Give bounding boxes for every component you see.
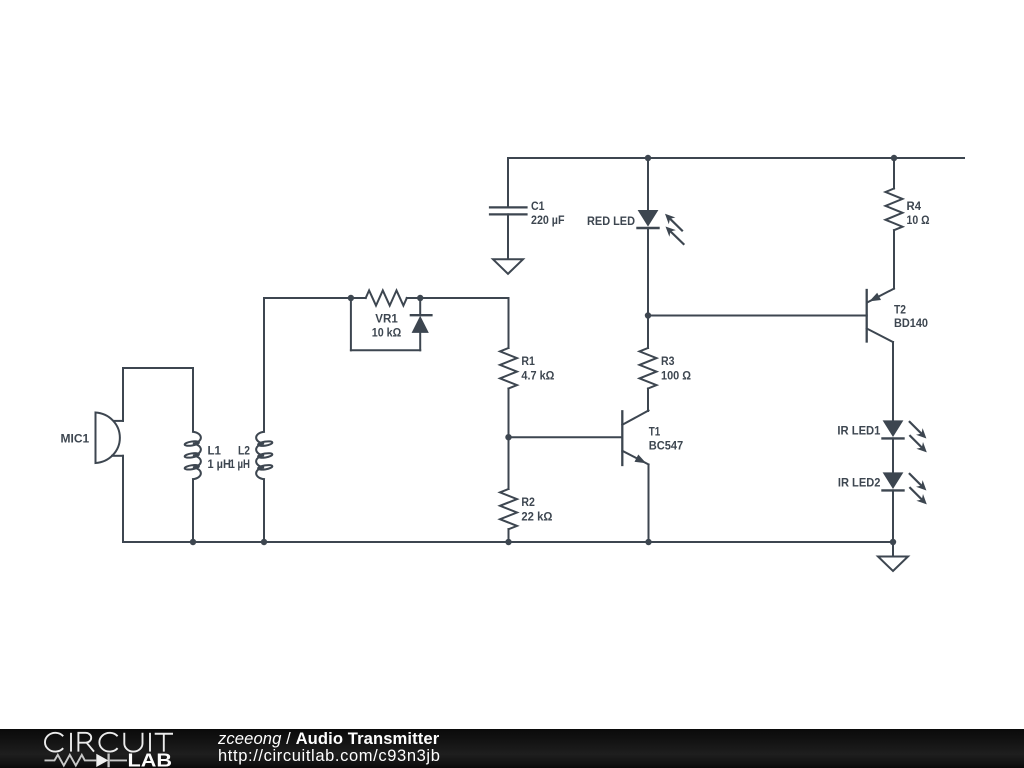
svg-text:RED LED: RED LED [587, 214, 635, 228]
wire L1 top lead [192, 368, 194, 432]
RED LED arrow 2 [666, 227, 684, 245]
wire VR1 left return [350, 298, 352, 350]
resistor R3 [640, 348, 657, 389]
diode VR1 wiper [411, 315, 432, 332]
node VR1 left junction [348, 295, 354, 301]
logo diode triangle [96, 754, 108, 767]
wire R1 to R2 [508, 389, 510, 490]
footer bar [0, 729, 1024, 768]
svg-text:T1: T1 [649, 425, 661, 439]
wire T1 base [509, 436, 622, 438]
wire rail to R4 [893, 158, 895, 189]
LED RED LED symbol [638, 211, 659, 229]
wire down to R1 [508, 298, 510, 348]
svg-text:4.7 kΩ: 4.7 kΩ [521, 369, 554, 383]
wire IR LED1 to IR LED2 [892, 438, 894, 473]
wire mic bottom stub [112, 455, 123, 457]
wire L2 bottom lead [263, 479, 265, 542]
IR LED2 arrow 2 [910, 488, 927, 505]
svg-text:BD140: BD140 [894, 316, 928, 330]
wire mic top lead [122, 368, 124, 421]
svg-text:T2: T2 [894, 303, 906, 317]
wire L2 top to VR1 [264, 297, 351, 299]
svg-text:L2: L2 [238, 444, 250, 458]
svg-text:10 kΩ: 10 kΩ [372, 326, 402, 340]
node IR LED2 bottom junction [890, 539, 896, 545]
resistor R2 [500, 489, 517, 529]
capacitor C1 [490, 207, 527, 214]
node T1 emitter bottom junction [645, 539, 651, 545]
svg-text:C1: C1 [531, 199, 545, 213]
resistor R1 [500, 348, 517, 389]
node L1 bottom junction [190, 539, 196, 545]
svg-text:IR LED1: IR LED1 [837, 424, 880, 438]
svg-text:R4: R4 [907, 199, 922, 213]
svg-text:L1: L1 [208, 444, 222, 458]
inductor L1 [184, 432, 201, 480]
wire top rail [508, 157, 964, 159]
T1 emitter arrow [635, 455, 647, 464]
wire T2 collector to IR LED1 [892, 342, 894, 421]
IR LED1 arrow 2 [910, 436, 927, 453]
logo resistor-diode strut [45, 754, 128, 768]
wire R4 to T2 emitter [893, 230, 895, 288]
node R2 bottom junction [505, 539, 511, 545]
node junction R1/R2/T1-base [505, 434, 511, 440]
wire mic bottom lead [122, 456, 124, 542]
wire R2 to bottom rail [508, 529, 510, 542]
svg-text:MIC1: MIC1 [61, 432, 90, 446]
node VR1 right junction [417, 295, 423, 301]
resistor R4 [886, 189, 903, 231]
wire T1 emitter to bottom rail [648, 465, 650, 543]
RED LED arrow 1 [665, 214, 682, 231]
node junction top rail / RED LED branch [645, 155, 651, 161]
wire VR1 to R1 corner [420, 297, 508, 299]
svg-text:R3: R3 [661, 354, 675, 368]
ground C1 [493, 259, 523, 274]
LED IR LED1 symbol [883, 421, 904, 439]
svg-text:IR LED2: IR LED2 [838, 476, 881, 490]
node junction LED/R3/T2-base [645, 312, 651, 318]
wire T2 base [648, 315, 867, 317]
resistor VR1 [366, 290, 407, 305]
wire to VR1 diode cathode [419, 298, 421, 315]
IR LED1 arrow 1 [910, 422, 927, 439]
svg-text:1 µH: 1 µH [208, 457, 231, 471]
wire L2 top lead [263, 298, 265, 432]
svg-text:10 Ω: 10 Ω [907, 213, 930, 227]
wire mic top stub [113, 420, 123, 422]
wire VR1 left lead [351, 297, 366, 299]
wire mic top to L1 [123, 367, 193, 369]
svg-text:VR1: VR1 [375, 312, 398, 326]
svg-text:R2: R2 [521, 495, 535, 509]
svg-text:220 µF: 220 µF [531, 213, 565, 227]
wire rail to RED LED [647, 158, 649, 211]
wire C1 bottom lead [507, 214, 509, 259]
svg-text:R1: R1 [521, 354, 535, 368]
svg-text:1 µH: 1 µH [230, 457, 251, 471]
svg-text:LAB: LAB [128, 750, 173, 768]
wire bottom rail [123, 541, 893, 543]
microphone MIC1 [96, 413, 120, 464]
node junction top rail / R4 branch [891, 155, 897, 161]
wire diode anode down [419, 332, 421, 350]
node L2 bottom junction [261, 539, 267, 545]
ground bottom right [878, 557, 908, 572]
LED IR LED2 symbol [883, 473, 904, 491]
wire RED LED to R3 [647, 228, 649, 348]
wire IR LED2 to bottom rail [892, 490, 894, 542]
transistor T2 BD140 [867, 289, 894, 342]
svg-text:100 Ω: 100 Ω [661, 369, 691, 383]
inductor L2 [256, 432, 273, 480]
wire C1 top lead [507, 158, 509, 207]
T2 emitter arrow [869, 293, 881, 302]
svg-text:BC547: BC547 [649, 439, 684, 453]
wire to ground [892, 542, 894, 557]
logo CIRCUIT wordmark [45, 733, 173, 752]
wire L1 bottom lead [192, 479, 194, 542]
svg-text:22 kΩ: 22 kΩ [521, 510, 552, 524]
wire VR1 right lead [407, 297, 420, 299]
wire R3 to T1 collector [647, 389, 649, 412]
IR LED2 arrow 1 [910, 474, 927, 491]
wire VR1 bottom return [351, 349, 420, 351]
transistor T1 BC547 [622, 411, 648, 466]
